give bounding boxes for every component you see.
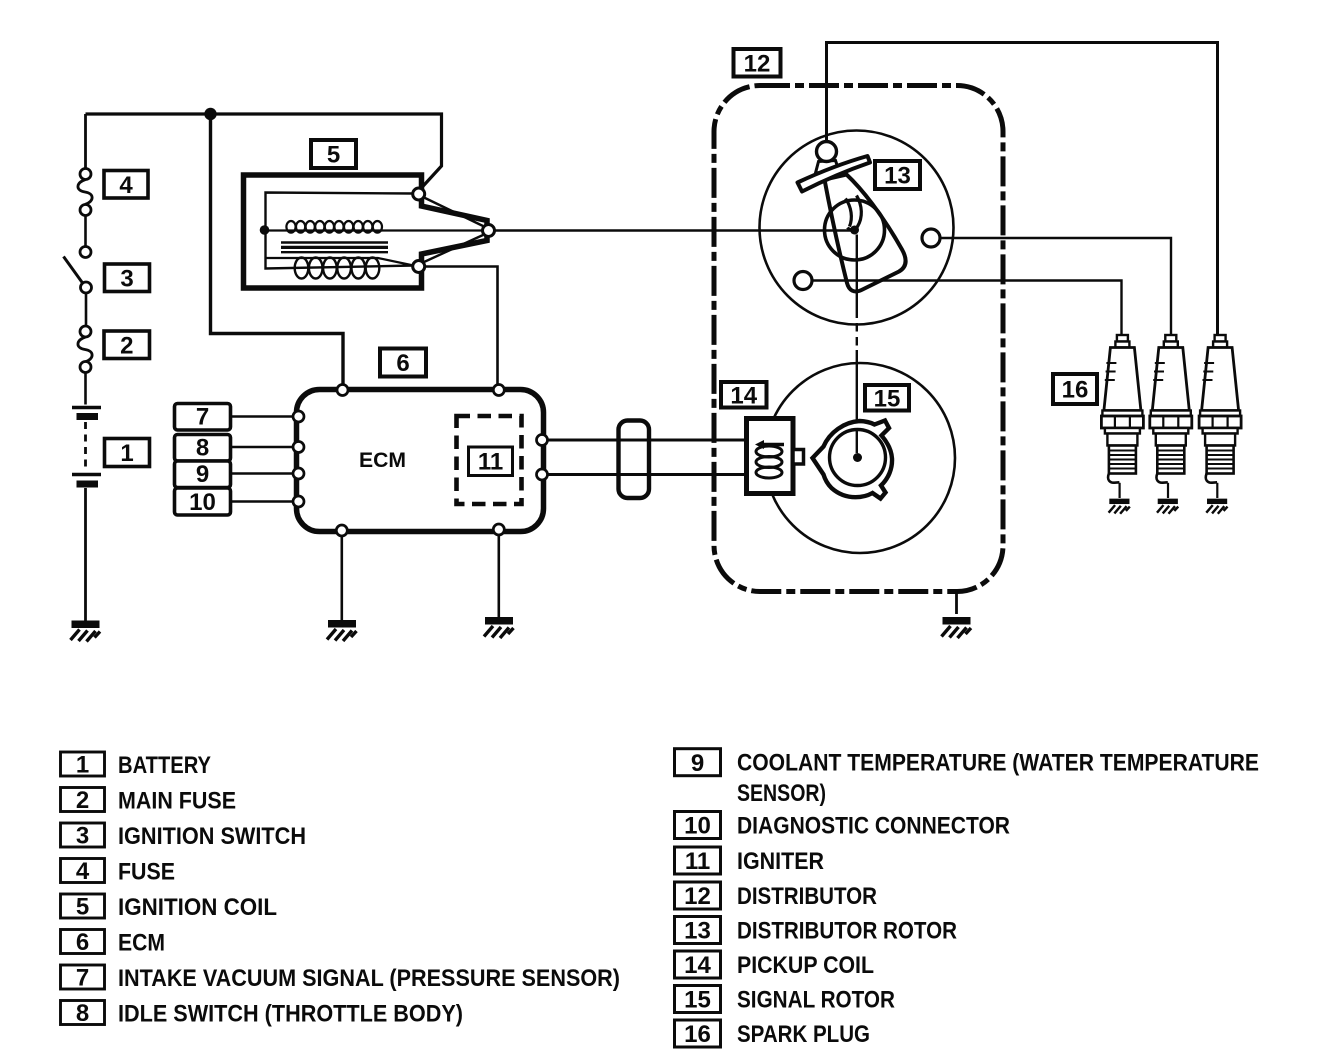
pin ECM left 4	[293, 496, 304, 507]
svg-text:BATTERY: BATTERY	[118, 752, 211, 779]
wire ECM ground left	[340, 532, 343, 621]
ground battery	[71, 621, 101, 642]
label box 14	[721, 382, 767, 408]
svg-text:MAIN FUSE: MAIN FUSE	[118, 787, 236, 814]
pin ECM left 2	[293, 442, 304, 453]
svg-text:15: 15	[874, 385, 901, 412]
coolant temperature sensor 9	[175, 461, 231, 488]
svg-text:4: 4	[119, 172, 133, 199]
wire cap lower terminal to plug 1	[812, 281, 1122, 335]
label box 5	[311, 140, 356, 168]
svg-text:4: 4	[76, 858, 90, 885]
label box 6	[380, 349, 426, 377]
svg-text:14: 14	[684, 952, 711, 979]
svg-text:ECM: ECM	[359, 448, 406, 472]
svg-text:1: 1	[120, 440, 133, 467]
connector	[619, 421, 650, 499]
pin cap terminal lower	[794, 272, 812, 290]
wire B+ feed top	[86, 114, 442, 190]
wire battery top	[84, 114, 87, 169]
wire cap top terminal to plug 3	[827, 43, 1218, 335]
svg-text:DIAGNOSTIC CONNECTOR: DIAGNOSTIC CONNECTOR	[737, 812, 1010, 839]
svg-text:IGNITION COIL: IGNITION COIL	[118, 894, 277, 921]
svg-text:12: 12	[684, 883, 711, 910]
svg-text:16: 16	[684, 1021, 711, 1048]
node rotor center	[850, 226, 859, 235]
distributor rotor 13	[825, 200, 885, 260]
wire	[231, 415, 297, 418]
wires ECM to pickup coil	[537, 421, 747, 499]
svg-text:PICKUP COIL: PICKUP COIL	[737, 952, 874, 979]
svg-text:DISTRIBUTOR ROTOR: DISTRIBUTOR ROTOR	[737, 917, 957, 944]
wire	[231, 472, 297, 475]
svg-text:3: 3	[76, 823, 89, 850]
svg-text:IGNITER: IGNITER	[737, 848, 824, 875]
svg-text:10: 10	[684, 813, 711, 840]
pin coil HT terminal	[483, 225, 495, 237]
igniter U11 dashed outline	[457, 416, 522, 504]
svg-text:12: 12	[744, 51, 771, 78]
svg-text:11: 11	[685, 848, 710, 875]
intake vacuum signal 7	[175, 404, 305, 516]
ignition coil T5	[244, 175, 498, 385]
label box 13	[875, 161, 920, 189]
wire	[85, 293, 88, 326]
signal rotor carrier circle	[765, 363, 955, 553]
svg-text:DISTRIBUTOR: DISTRIBUTOR	[737, 883, 877, 910]
svg-text:COOLANT TEMPERATURE (WATER TEM: COOLANT TEMPERATURE (WATER TEMPERATURE	[737, 750, 1259, 777]
svg-text:14: 14	[730, 382, 757, 409]
legend left column	[61, 752, 105, 1028]
pin coil terminal top	[413, 188, 425, 200]
coil core	[281, 241, 388, 243]
distributor cap circle	[760, 131, 954, 325]
svg-text:SPARK PLUG: SPARK PLUG	[737, 1021, 870, 1048]
wire HT coil to rotor	[495, 229, 853, 231]
ground distributor	[942, 618, 972, 639]
pin ECM right 1	[537, 435, 548, 446]
coil secondary winding	[266, 258, 414, 266]
svg-text:5: 5	[76, 894, 89, 921]
svg-text:FUSE: FUSE	[118, 858, 175, 885]
svg-text:ECM: ECM	[118, 929, 165, 956]
wire coil secondary to ECM	[425, 267, 498, 386]
wire cap right terminal to plug 2	[940, 238, 1171, 334]
svg-text:8: 8	[196, 435, 209, 462]
svg-text:3: 3	[120, 265, 133, 292]
svg-text:6: 6	[76, 929, 89, 956]
main fuse F2	[80, 326, 91, 337]
coil primary winding	[260, 225, 270, 235]
node junction	[204, 108, 216, 120]
wire	[231, 446, 297, 449]
pin cap terminal top	[817, 142, 837, 162]
pickup coil 14	[747, 419, 804, 494]
svg-text:10: 10	[189, 489, 216, 516]
signal rotor 15	[813, 421, 893, 499]
svg-text:INTAKE VACUUM SIGNAL (PRESSURE: INTAKE VACUUM SIGNAL (PRESSURE SENSOR)	[118, 965, 620, 992]
svg-text:8: 8	[76, 1000, 89, 1027]
svg-text:IDLE SWITCH (THROTTLE BODY): IDLE SWITCH (THROTTLE BODY)	[118, 1000, 463, 1027]
pin ECM left 3	[293, 468, 304, 479]
idle switch 8	[175, 435, 231, 462]
svg-text:SIGNAL ROTOR: SIGNAL ROTOR	[737, 986, 895, 1013]
label box 12	[734, 49, 781, 77]
pin ECM bottom left	[336, 525, 347, 536]
svg-text:7: 7	[76, 965, 89, 992]
wire ECM ground right	[497, 530, 500, 617]
svg-text:IGNITION SWITCH: IGNITION SWITCH	[118, 823, 306, 850]
pin ECM top left	[337, 385, 348, 396]
label box 15	[865, 385, 909, 411]
legend right column	[675, 749, 721, 1048]
svg-text:2: 2	[76, 787, 89, 814]
svg-text:7: 7	[196, 404, 209, 431]
svg-text:11: 11	[478, 449, 503, 476]
spark plug 16c	[1199, 335, 1241, 514]
svg-text:13: 13	[684, 918, 711, 945]
svg-text:13: 13	[884, 163, 911, 190]
svg-text:6: 6	[396, 350, 409, 377]
pin ECM bottom right	[493, 524, 504, 535]
ignition switch S3	[80, 247, 91, 258]
svg-text:16: 16	[1062, 377, 1089, 404]
distributor 12	[483, 43, 1218, 639]
svg-text:1: 1	[76, 752, 89, 779]
wire	[231, 500, 297, 503]
fuse F4	[80, 169, 91, 180]
wire distributor ground	[955, 591, 958, 614]
wire rotor shaft to signal rotor	[856, 235, 858, 319]
wire	[84, 216, 87, 247]
svg-text:15: 15	[684, 987, 711, 1014]
pin ECM top right	[493, 385, 504, 396]
pin ECM right 2	[537, 469, 548, 480]
label box 1	[105, 439, 150, 467]
svg-text:SENSOR): SENSOR)	[737, 780, 826, 807]
wire junction to ECM	[211, 114, 344, 386]
battery B1	[72, 406, 101, 409]
svg-text:2: 2	[120, 332, 133, 359]
svg-text:9: 9	[691, 750, 704, 777]
wire	[84, 373, 87, 405]
label box 4	[104, 171, 148, 199]
ground ECM left	[327, 621, 357, 642]
wire battery to ground	[84, 488, 87, 621]
label box 3	[105, 264, 150, 292]
spark plug 16b	[1150, 335, 1192, 514]
pin cap terminal right	[922, 229, 940, 247]
label box 16	[1053, 374, 1097, 404]
svg-text:5: 5	[327, 142, 340, 169]
diagnostic connector 10	[175, 488, 231, 515]
ground ECM right	[484, 618, 514, 639]
svg-text:9: 9	[196, 461, 209, 488]
label box 2	[104, 331, 150, 359]
spark plug 16a	[1101, 335, 1143, 514]
ECM U6	[297, 385, 544, 642]
pin ECM left 1	[293, 411, 304, 422]
pin coil terminal bottom	[413, 261, 425, 273]
